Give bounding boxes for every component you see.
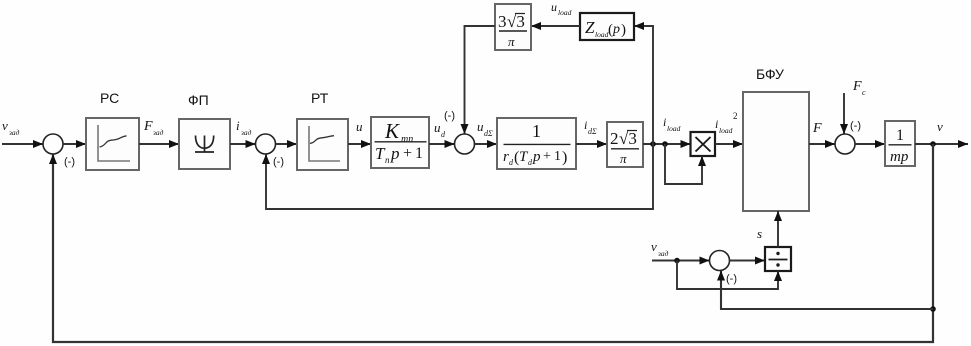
svg-text:зад: зад (657, 249, 669, 258)
wire S2 to RT (276, 143, 298, 145)
svg-text:F: F (143, 119, 153, 134)
wire RS to FP (139, 143, 179, 145)
svg-text:(-): (-) (444, 110, 455, 122)
svg-text:2: 2 (610, 129, 619, 148)
svg-text:1: 1 (896, 127, 904, 144)
svg-text:РТ: РТ (311, 90, 329, 106)
svg-text:ФП: ФП (188, 92, 209, 108)
svg-text:u: u (356, 119, 363, 134)
svg-text:): ) (562, 149, 567, 166)
wire vzad to divider bottom (677, 261, 778, 290)
svg-text:+: + (543, 149, 551, 164)
svg-text:√3: √3 (619, 129, 637, 148)
wire current feedback to S2 (266, 144, 653, 209)
summing junction S5 (710, 251, 730, 271)
wire output v (915, 143, 968, 145)
svg-text:зад: зад (240, 128, 252, 137)
wire FP to S2 (230, 143, 256, 145)
node dot A (650, 141, 656, 147)
label F_zad (143, 119, 164, 137)
label u_load (551, 0, 572, 17)
label u_d (434, 120, 446, 139)
svg-text:p: p (390, 144, 400, 163)
svg-text:s: s (757, 226, 762, 241)
svg-text:3: 3 (498, 12, 507, 31)
svg-text:зад: зад (152, 128, 164, 137)
svg-text:F: F (812, 121, 822, 136)
svg-text:p: p (532, 149, 541, 165)
wire S5 to divider (730, 260, 766, 262)
wire K block to S3 (429, 143, 455, 145)
block RT (current regulator) (297, 119, 348, 170)
svg-text:u: u (551, 0, 557, 14)
wire S3 to rd block (475, 143, 498, 145)
svg-text:p: p (612, 22, 620, 37)
wire S4 to 1/mp (855, 143, 885, 145)
wire outer speed feedback (53, 144, 933, 342)
svg-text:(-): (-) (726, 273, 737, 285)
svg-text:1: 1 (415, 145, 423, 162)
wire S1 to RS (63, 143, 86, 145)
svg-text:зад: зад (8, 128, 20, 137)
svg-text:mp: mp (890, 149, 909, 165)
svg-text:v: v (651, 239, 657, 254)
divider block (765, 247, 791, 271)
svg-text:+: + (403, 145, 412, 162)
label v_zad slip (651, 239, 669, 258)
svg-text:dΣ: dΣ (484, 129, 493, 138)
svg-text:F: F (852, 79, 862, 94)
svg-text:load: load (595, 30, 609, 39)
block BFU (743, 92, 809, 211)
svg-text:i: i (236, 118, 240, 133)
wire divider to BFU (s) (777, 211, 779, 247)
label F_c (852, 79, 866, 97)
svg-text:dΣ: dΣ (588, 127, 597, 136)
svg-text:тп: тп (401, 134, 413, 145)
svg-text:i: i (715, 117, 718, 131)
wire 2sqrt3 block to multiplier (643, 143, 691, 145)
svg-text:(-): (-) (273, 156, 284, 168)
svg-text:i: i (663, 115, 666, 129)
block RS (speed regulator) (86, 118, 139, 170)
svg-text:load: load (558, 8, 572, 17)
svg-text:i: i (584, 118, 587, 132)
wire v_zad slip input (652, 260, 710, 262)
wire v to slip sum (721, 271, 933, 310)
block K_tp/(T_p p+1) (371, 117, 429, 168)
node dot v (930, 141, 936, 147)
wire rd block to 2sqrt3 block (576, 143, 607, 145)
svg-text:load: load (719, 126, 733, 135)
summing junction S3 (455, 134, 475, 154)
node dot slip (674, 258, 680, 264)
wire BFU to S4 (809, 143, 835, 145)
svg-text:load: load (667, 124, 681, 133)
svg-text:п: п (385, 155, 390, 165)
svg-text:√3: √3 (507, 12, 525, 31)
svg-text:): ) (621, 22, 626, 38)
label i_zad (236, 118, 252, 137)
svg-text:Z: Z (585, 18, 595, 37)
svg-text:v: v (2, 118, 8, 133)
summing junction S4 (835, 134, 855, 154)
svg-text:π: π (508, 34, 515, 49)
wire Zload to 3sqrt3 (531, 25, 580, 27)
label i_load^2 (715, 111, 738, 135)
svg-text:π: π (620, 151, 627, 166)
svg-text:v: v (937, 119, 943, 134)
svg-text:K: K (384, 119, 400, 143)
svg-text:РС: РС (100, 90, 119, 106)
wire multiplier loop (665, 144, 702, 184)
svg-text:(-): (-) (850, 120, 861, 132)
svg-text:БФУ: БФУ (756, 66, 784, 82)
svg-text:2: 2 (733, 111, 738, 121)
label u_dS (477, 119, 493, 138)
node dot B (662, 141, 668, 147)
svg-text:u: u (434, 120, 441, 135)
svg-text:1: 1 (554, 149, 561, 164)
svg-text:u: u (477, 119, 484, 134)
block 1/mp (885, 121, 915, 166)
wire up to Zload (634, 26, 653, 144)
multiplier block (691, 132, 716, 156)
label i_load (663, 115, 681, 133)
wire F_c input (843, 93, 845, 134)
summing junction S2 (256, 134, 276, 154)
node label v_zad (2, 118, 20, 137)
label i_dS (584, 118, 597, 136)
block 2sqrt3/pi (607, 122, 643, 167)
node dot on feedback (930, 306, 936, 312)
svg-text:1: 1 (532, 121, 541, 141)
block 1/(rd(Td p+1)) (497, 118, 576, 169)
wire 3sqrt3 to S3 (465, 26, 496, 134)
svg-text:(-): (-) (64, 156, 75, 168)
wire input v_zad (2, 143, 43, 145)
wire RT to K block (348, 143, 371, 145)
block Zload(p) (580, 13, 634, 40)
block FP (flux setter, psi symbol) (179, 119, 230, 169)
svg-text:c: c (862, 88, 866, 97)
summing junction S1 (43, 134, 63, 154)
wire multiplier to BFU (715, 143, 743, 145)
block 3sqrt3/pi (495, 4, 531, 50)
